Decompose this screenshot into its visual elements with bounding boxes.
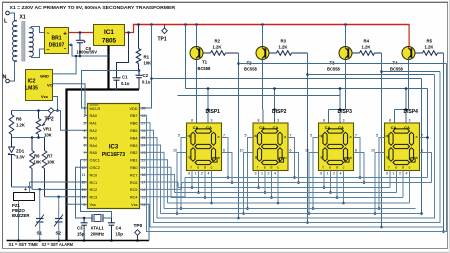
DISP1 right pin wires: [222, 138, 229, 178]
+5V rail (red): [133, 24, 409, 26]
svg-text:+: +: [24, 187, 27, 193]
svg-text:f: f: [191, 166, 192, 170]
svg-text:RC3: RC3: [90, 196, 98, 200]
svg-text:3.3V: 3.3V: [16, 155, 25, 160]
svg-text:13: 13: [82, 188, 86, 192]
svg-text:VO: VO: [47, 83, 53, 88]
DISP4 left pin wires: [379, 138, 385, 209]
svg-text:4: 4: [84, 129, 86, 133]
svg-text:4: 4: [340, 172, 342, 176]
svg-text:MCLR: MCLR: [90, 107, 101, 111]
node IC1 gnd: [107, 55, 110, 58]
svg-text:ZD1: ZD1: [16, 149, 25, 154]
wire MCLR from R1/C2 node: [82, 71, 140, 109]
DISP4 seven segment digit: [393, 129, 410, 133]
display DISP2 top pins: [262, 109, 265, 111]
svg-text:R4: R4: [364, 39, 370, 44]
CA line corner to segment bus: [427, 89, 429, 138]
svg-text:X1 = 230V AC PRIMARY TO 9V, 50: X1 = 230V AC PRIMARY TO 9V, 500mA SECOND…: [10, 5, 176, 11]
svg-text:XTAL1: XTAL1: [91, 226, 105, 231]
svg-text:2: 2: [268, 172, 270, 176]
svg-text:21: 21: [142, 166, 146, 170]
wrap line 2: [140, 123, 444, 227]
svg-text:5: 5: [376, 134, 378, 138]
svg-text:RC2: RC2: [90, 188, 98, 192]
wire LM35 VO to RA0: [53, 84, 88, 116]
test point TP2: [48, 108, 54, 114]
transistor T3 BC558: [344, 23, 347, 26]
svg-text:C3: C3: [77, 226, 83, 231]
bus line 4: [171, 197, 403, 199]
svg-text:7: 7: [355, 134, 357, 138]
svg-text:a: a: [350, 135, 352, 139]
svg-text:10: 10: [173, 149, 177, 153]
svg-text:OSC1: OSC1: [90, 159, 100, 163]
svg-text:g: g: [189, 155, 191, 159]
svg-text:RB1: RB1: [130, 159, 137, 163]
svg-text:DB107: DB107: [49, 43, 65, 49]
svg-text:24: 24: [142, 144, 146, 148]
DISP4 decimal point: [411, 158, 415, 162]
display DISP3 body: [319, 123, 354, 171]
svg-text:c: c: [409, 166, 411, 170]
svg-text:28: 28: [142, 114, 146, 118]
DISP3 decimal point: [345, 158, 349, 162]
svg-text:10: 10: [371, 149, 375, 153]
transformer X1 secondary winding: [29, 28, 33, 57]
IC3 unused pin stubs: [84, 122, 88, 124]
bridge rectifier BR1 DB107: [45, 28, 69, 54]
svg-text:RC6: RC6: [130, 181, 138, 185]
BR1 pin arrow: [70, 43, 73, 46]
svg-text:10K: 10K: [34, 160, 42, 165]
resistor R3 1.2K: [269, 52, 277, 54]
collector wire T1: [196, 60, 198, 110]
svg-text:3: 3: [409, 119, 411, 123]
svg-text:LM35: LM35: [25, 86, 38, 92]
DISP2 seven segment digit: [262, 129, 279, 133]
transistor T2 BC558: [261, 23, 264, 26]
wire Vss right to ground bus: [140, 204, 150, 240]
ground trunk down (thick): [65, 89, 67, 241]
svg-text:2: 2: [84, 114, 86, 118]
svg-text:1.2K: 1.2K: [279, 45, 288, 50]
svg-text:+: +: [63, 31, 67, 38]
svg-text:~: ~: [47, 48, 50, 54]
svg-text:0.1u: 0.1u: [142, 80, 151, 85]
svg-text:4: 4: [274, 172, 276, 176]
svg-text:c: c: [211, 166, 213, 170]
display DISP3 top pins: [329, 109, 346, 111]
svg-text:RA5: RA5: [90, 151, 97, 155]
DISP1 left pin wires: [181, 138, 187, 209]
zener ZD1 3.3V: [11, 138, 13, 147]
svg-text:b: b: [218, 156, 220, 160]
svg-text:RA1: RA1: [90, 122, 97, 126]
display DISP1 body: [187, 123, 222, 171]
svg-text:6: 6: [355, 149, 357, 153]
wire BR1 + output (red): [69, 32, 94, 34]
capacitor C4 15p: [111, 218, 113, 223]
svg-text:f: f: [257, 166, 258, 170]
svg-text:6: 6: [421, 149, 423, 153]
svg-text:22: 22: [142, 158, 146, 162]
microcontroller IC3 PIC16F73: [88, 104, 140, 209]
test point TP1: [164, 25, 166, 29]
svg-text:S1: S1: [37, 231, 43, 236]
svg-text:RA0: RA0: [90, 114, 97, 118]
svg-text:1: 1: [261, 172, 263, 176]
svg-text:PIC16F73: PIC16F73: [102, 152, 125, 158]
wire BR1 - output: [69, 45, 109, 57]
CA common line: [186, 88, 428, 90]
resistor R5 1.2K: [415, 52, 423, 54]
svg-text:1: 1: [84, 107, 86, 111]
DISP3 right pin wires: [354, 138, 361, 178]
transformer core: [22, 22, 25, 62]
wire VDD drop from rail: [150, 23, 153, 26]
svg-text:IC3: IC3: [109, 145, 119, 151]
node C6 bottom: [79, 55, 82, 58]
svg-text:1.2K: 1.2K: [16, 123, 25, 128]
resistor R6 10K: [31, 138, 33, 151]
svg-text:9: 9: [386, 172, 388, 176]
wire ZD1 to buzzer: [12, 186, 30, 188]
collector wire T3: [345, 60, 347, 110]
svg-text:2: 2: [399, 172, 401, 176]
svg-text:26: 26: [142, 129, 146, 133]
svg-text:6: 6: [223, 149, 225, 153]
svg-text:10: 10: [82, 166, 86, 170]
svg-text:1.2K: 1.2K: [425, 45, 434, 50]
DISP4 bottom pin wires: [389, 171, 391, 188]
capacitor C6: [79, 33, 81, 41]
svg-text:c: c: [343, 166, 345, 170]
svg-text:X1: X1: [20, 15, 26, 21]
svg-text:1000u/35V: 1000u/35V: [77, 50, 98, 55]
svg-text:RB6: RB6: [130, 122, 137, 126]
svg-text:DISP4: DISP4: [404, 109, 419, 115]
svg-text:8: 8: [191, 119, 193, 123]
bus line 3: [168, 202, 410, 204]
svg-text:a: a: [416, 135, 418, 139]
svg-text:5: 5: [84, 136, 86, 140]
svg-text:19: 19: [142, 203, 146, 207]
svg-text:RA3: RA3: [90, 136, 97, 140]
wire secondary top to BR1: [29, 27, 44, 33]
svg-text:8: 8: [84, 203, 86, 207]
svg-text:RB7: RB7: [130, 114, 137, 118]
terminal L: [6, 11, 10, 15]
svg-text:3: 3: [84, 121, 86, 125]
wire OSC2: [76, 167, 93, 218]
svg-text:R5: R5: [427, 39, 433, 44]
svg-text:c: c: [277, 166, 279, 170]
bus line 1: [161, 213, 422, 215]
svg-text:S1 = SET TIME: S1 = SET TIME: [9, 242, 39, 247]
base net horizontals: [239, 63, 447, 65]
display DISP4 body: [385, 123, 420, 171]
svg-text:9: 9: [188, 172, 190, 176]
svg-text:d: d: [402, 166, 404, 170]
svg-text:R1: R1: [144, 55, 150, 60]
svg-text:14: 14: [82, 195, 86, 199]
wrap line 4: [140, 75, 435, 219]
svg-text:8: 8: [389, 119, 391, 123]
wire RA2 to bias rail: [61, 111, 88, 131]
transistor T1 BC558: [195, 23, 198, 26]
collector wire T2: [262, 60, 264, 110]
collector wire T4: [408, 60, 410, 110]
svg-text:RC1: RC1: [90, 181, 98, 185]
crystal XTAL1 20MHz: [91, 214, 93, 222]
svg-text:TP1: TP1: [158, 37, 167, 43]
svg-text:18: 18: [142, 173, 146, 177]
svg-text:10: 10: [240, 149, 244, 153]
svg-text:9: 9: [255, 172, 257, 176]
svg-text:15p: 15p: [77, 232, 85, 237]
svg-text:Vss: Vss: [90, 203, 96, 207]
svg-text:9: 9: [84, 158, 86, 162]
svg-text:10K: 10K: [144, 61, 152, 66]
svg-text:25: 25: [142, 136, 146, 140]
svg-text:10K: 10K: [47, 160, 55, 165]
bus line 2: [164, 208, 416, 210]
svg-text:DISP3: DISP3: [338, 109, 353, 115]
svg-text:f: f: [323, 166, 324, 170]
svg-text:5: 5: [245, 134, 247, 138]
svg-text:3: 3: [211, 119, 213, 123]
svg-text:f: f: [389, 166, 390, 170]
svg-text:2: 2: [201, 172, 203, 176]
svg-text:BR1: BR1: [51, 36, 61, 42]
svg-text:Vss: Vss: [131, 203, 137, 207]
svg-text:R6: R6: [34, 154, 40, 159]
svg-text:RC7: RC7: [130, 173, 138, 177]
ground bus horizontal (thick): [67, 88, 140, 90]
display DISP2 body: [253, 123, 288, 171]
svg-text:IC2: IC2: [28, 79, 36, 85]
ground bus: [7, 240, 150, 242]
transistor T4 BC558: [408, 24, 410, 47]
svg-text:C2: C2: [143, 73, 149, 78]
svg-text:N: N: [3, 75, 7, 81]
svg-text:RA2: RA2: [90, 129, 97, 133]
svg-text:g: g: [255, 155, 257, 159]
capacitor C1: [117, 33, 129, 78]
svg-text:11: 11: [82, 173, 86, 177]
base drive drops: [238, 53, 240, 218]
svg-text:1.2K: 1.2K: [213, 45, 222, 50]
svg-text:IC1: IC1: [104, 29, 114, 36]
wire secondary bottom to BR1: [29, 49, 44, 58]
svg-text:BC558: BC558: [244, 67, 257, 72]
svg-text:5: 5: [310, 134, 312, 138]
wire S1 to RC2: [32, 188, 88, 190]
svg-text:6: 6: [84, 144, 86, 148]
svg-text:Vcc: Vcc: [41, 94, 49, 99]
svg-text:R2: R2: [215, 39, 221, 44]
svg-text:1: 1: [393, 172, 395, 176]
svg-text:RC5: RC5: [130, 188, 138, 192]
svg-text:RB3: RB3: [130, 144, 137, 148]
buzzer ground lead: [18, 201, 20, 241]
photo edge shading: [0, 251, 450, 253]
node R1/C2: [138, 69, 141, 72]
wire S2 to RC3: [45, 196, 88, 198]
DISP2 right pin wires: [288, 138, 295, 178]
svg-text:RC4: RC4: [130, 196, 138, 200]
resistor R8 1.2K: [11, 111, 13, 115]
svg-text:3: 3: [343, 119, 345, 123]
switch S1: [39, 189, 41, 218]
wire primary bottom to N: [9, 61, 17, 81]
switch S2: [58, 197, 60, 219]
svg-text:RA4: RA4: [90, 144, 97, 148]
svg-text:a: a: [284, 135, 286, 139]
svg-text:d: d: [270, 166, 272, 170]
svg-text:4: 4: [208, 172, 210, 176]
svg-text:b: b: [350, 156, 352, 160]
svg-text:e: e: [197, 166, 199, 170]
DISP2 left pin wires: [248, 138, 254, 209]
svg-text:27: 27: [142, 121, 146, 125]
svg-text:12: 12: [82, 181, 86, 185]
svg-text:+: +: [83, 40, 86, 46]
svg-text:DISP2: DISP2: [272, 109, 287, 115]
svg-text:15p: 15p: [116, 232, 124, 237]
wire OSC1: [81, 160, 112, 218]
DISP2 decimal point: [279, 158, 283, 162]
svg-text:7: 7: [421, 134, 423, 138]
long line y78: [150, 77, 153, 80]
bus line 8: [185, 177, 428, 179]
svg-text:16: 16: [142, 188, 146, 192]
svg-text:e: e: [395, 166, 397, 170]
wrap line 1: [140, 64, 447, 232]
svg-text:b: b: [285, 156, 287, 160]
svg-text:d: d: [336, 166, 338, 170]
svg-text:C4: C4: [116, 226, 122, 231]
svg-text:RC0: RC0: [90, 173, 98, 177]
svg-text:0.1u: 0.1u: [121, 81, 130, 86]
wire CA common line feed: [184, 23, 187, 26]
svg-text:DISP1: DISP1: [206, 109, 221, 115]
svg-text:R7: R7: [47, 154, 53, 159]
preset VR1 10K: [37, 109, 40, 112]
svg-text:7: 7: [84, 151, 86, 155]
svg-text:17: 17: [142, 181, 146, 185]
svg-text:BC558: BC558: [390, 67, 403, 72]
resistor R2 1.2K: [203, 52, 211, 54]
svg-text:15: 15: [142, 195, 146, 199]
svg-text:BC558: BC558: [198, 66, 211, 71]
svg-text:T1: T1: [202, 60, 208, 65]
wire bias bottom y137: [12, 137, 45, 139]
svg-text:8: 8: [258, 119, 260, 123]
svg-text:VDD: VDD: [129, 107, 137, 111]
resistor R1 10K: [137, 23, 140, 26]
svg-text:BC558: BC558: [327, 67, 340, 72]
svg-text:GND: GND: [40, 74, 49, 79]
DISP4 right pin wires: [420, 138, 428, 178]
wire buzzer to RC1: [30, 181, 88, 183]
capacitor C3 15p: [83, 217, 86, 220]
DISP1 decimal point: [213, 158, 217, 162]
bus line 5: [175, 192, 397, 194]
svg-text:23: 23: [142, 151, 146, 155]
DISP3 left pin wires: [313, 138, 319, 209]
svg-text:VR1: VR1: [43, 127, 52, 132]
svg-text:7: 7: [223, 134, 225, 138]
DISP3 bottom pin wires: [323, 171, 325, 188]
wire L to primary: [9, 13, 17, 21]
svg-text:e: e: [264, 166, 266, 170]
svg-text:7: 7: [290, 134, 292, 138]
svg-text:TP2: TP2: [45, 117, 54, 123]
DISP3 seven segment digit: [327, 129, 344, 133]
DISP1 seven segment digit: [195, 129, 212, 133]
svg-text:b: b: [416, 156, 418, 160]
svg-text:4: 4: [406, 172, 408, 176]
svg-text:S2: S2: [56, 231, 62, 236]
svg-text:9: 9: [320, 172, 322, 176]
svg-text:1: 1: [327, 172, 329, 176]
wire bias rail y110: [12, 110, 61, 112]
svg-text:R3: R3: [281, 39, 287, 44]
svg-text:3: 3: [277, 119, 279, 123]
sensor IC2 LM35: [26, 70, 53, 101]
wire LM35 Vcc: [53, 97, 58, 111]
svg-text:20MHz: 20MHz: [91, 232, 105, 237]
svg-text:7805: 7805: [102, 38, 117, 45]
svg-text:e: e: [329, 166, 331, 170]
svg-text:RB5: RB5: [130, 129, 137, 133]
regulator IC1 7805: [94, 25, 125, 46]
transformer X1 primary winding: [13, 21, 17, 62]
svg-text:10: 10: [305, 149, 309, 153]
display DISP1 top pins: [196, 109, 198, 111]
svg-text:BUZZER: BUZZER: [12, 213, 30, 218]
svg-text:10K: 10K: [44, 133, 52, 138]
svg-text:g: g: [387, 155, 389, 159]
svg-text:TP0: TP0: [134, 223, 143, 229]
display DISP4 top pins: [395, 109, 409, 111]
wire IC1 output to +5V rail (red): [125, 32, 134, 34]
svg-text:2: 2: [333, 172, 335, 176]
svg-text:R8: R8: [16, 117, 22, 122]
svg-text:20: 20: [142, 107, 146, 111]
svg-text:1: 1: [195, 172, 197, 176]
svg-text:C1: C1: [122, 75, 128, 80]
svg-text:S2 = SET ALARM: S2 = SET ALARM: [42, 242, 74, 247]
node C6 top: [79, 31, 82, 34]
node C1 gnd: [115, 88, 118, 91]
node C1 feed: [127, 31, 130, 34]
capacitor C2: [138, 71, 140, 76]
bus line 6: [178, 187, 390, 189]
svg-text:6: 6: [290, 149, 292, 153]
svg-text:~: ~: [47, 31, 50, 37]
svg-text:5: 5: [178, 134, 180, 138]
DISP1 bottom pin wires: [191, 171, 193, 188]
piezo buzzer PZ1: [14, 193, 35, 201]
svg-text:RB2: RB2: [130, 151, 137, 155]
svg-text:a: a: [218, 135, 220, 139]
IC1 ground lead (thick): [107, 46, 109, 90]
wire LM35 gnd to C6 node: [53, 56, 77, 74]
svg-text:OSC2: OSC2: [90, 166, 100, 170]
